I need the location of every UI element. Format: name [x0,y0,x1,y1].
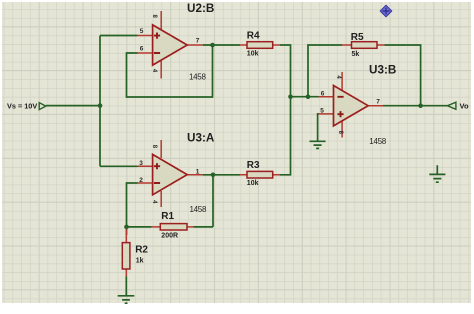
svg-text:5: 5 [140,28,144,35]
svg-text:7: 7 [196,38,200,45]
svg-text:R5: R5 [351,32,364,43]
svg-text:6: 6 [140,46,144,53]
svg-text:1: 1 [196,168,200,175]
svg-text:7: 7 [376,98,380,105]
svg-text:U2:B: U2:B [187,2,214,15]
svg-text:R3: R3 [247,160,260,171]
svg-text:10k: 10k [247,180,259,187]
svg-text:1458: 1458 [189,72,206,81]
svg-text:2: 2 [139,177,143,184]
svg-text:3: 3 [139,160,143,167]
svg-text:Vs = 10V: Vs = 10V [7,101,37,110]
svg-text:200R: 200R [161,232,178,239]
svg-text:R2: R2 [135,244,148,255]
svg-text:R1: R1 [161,211,174,222]
svg-text:1458: 1458 [369,137,386,146]
svg-text:5: 5 [320,108,324,115]
svg-text:5k: 5k [352,51,360,58]
svg-text:U3:B: U3:B [369,64,396,77]
svg-text:U3:A: U3:A [187,132,215,145]
svg-text:10k: 10k [247,50,259,57]
svg-text:1k: 1k [136,258,144,265]
svg-text:Vo: Vo [460,102,469,111]
svg-text:6: 6 [321,90,325,97]
svg-text:R4: R4 [247,30,260,41]
svg-text:1458: 1458 [190,205,207,214]
